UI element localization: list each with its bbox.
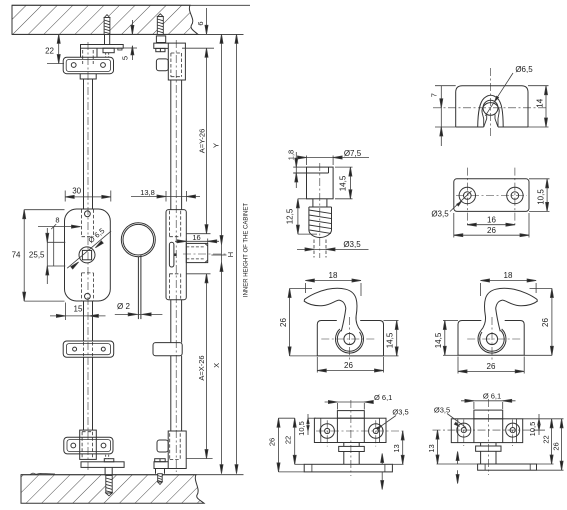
svg-text:H: H — [226, 252, 235, 257]
dim 22 (top left) — [58, 34, 60, 63]
catch slot — [484, 115, 498, 128]
svg-text:74: 74 — [12, 251, 21, 260]
front top bracket — [63, 57, 113, 73]
side bracket body — [168, 43, 185, 80]
dim Ø6,1 (guide M) — [336, 403, 338, 410]
dim 26 right (hook R) — [530, 288, 552, 290]
svg-text:Ø 6,1: Ø 6,1 — [483, 392, 501, 401]
bottom bracket hole right — [101, 443, 106, 448]
pin neck — [312, 199, 314, 207]
leader Ø3,5 (guide M) — [380, 416, 396, 428]
dim 13,8 (side body) — [165, 191, 167, 202]
hidden rod in body bottom (dashed) — [82, 273, 94, 301]
mid bracket hole left — [73, 347, 77, 351]
front screw shaft below panel — [104, 34, 106, 44]
hook R centerlines — [466, 338, 520, 340]
svg-text:26: 26 — [344, 361, 353, 370]
guide M centerlines — [350, 400, 352, 476]
side screw thread (embedded) — [157, 14, 163, 35]
guide M base — [304, 464, 392, 472]
long dim line INNER HEIGHT — [236, 34, 238, 473]
svg-text:6: 6 — [196, 21, 205, 25]
hook R base — [458, 321, 524, 356]
loop ring — [121, 223, 155, 257]
dim 8 — [38, 226, 81, 228]
svg-text:Ø3,5: Ø3,5 — [431, 210, 449, 219]
leader Ø3,5 (guide R) — [447, 414, 466, 428]
guide M hole right — [369, 424, 383, 438]
side bottom clip — [155, 459, 166, 462]
side bottom body — [168, 431, 186, 469]
leader Ø3,5 (strike) — [450, 191, 472, 212]
svg-text:25,5: 25,5 — [29, 251, 45, 260]
svg-text:26: 26 — [551, 442, 560, 450]
cylinder centerline — [183, 253, 227, 255]
dim 26 (guide M) — [279, 417, 295, 419]
top cabinet panel (hatched) — [12, 5, 198, 34]
side bottom screw shaft — [155, 469, 157, 474]
pin hidden core (dashed) — [314, 240, 326, 258]
dim 22 (guide M) — [295, 463, 305, 465]
hook R arm — [481, 288, 538, 331]
catch outline — [456, 86, 528, 127]
svg-text:16: 16 — [487, 216, 496, 225]
dim 26 bottom (hook R) — [457, 357, 459, 374]
front clamp hidden rod (dashed) — [83, 50, 94, 64]
long dim line Y / X — [221, 34, 223, 473]
hook L centerlines — [321, 338, 375, 340]
guide R hole left — [457, 423, 471, 437]
lock cylinder (side) — [186, 243, 207, 262]
hook L boss arcs — [335, 329, 363, 353]
front screw thread (embedded in top panel) — [104, 15, 110, 35]
svg-text:12,5: 12,5 — [286, 208, 295, 224]
dim 15 — [64, 303, 66, 321]
svg-text:14,5: 14,5 — [386, 332, 395, 348]
guide R centerlines — [487, 399, 489, 475]
svg-text:16: 16 — [192, 233, 200, 242]
dim 16 (strike) — [467, 224, 515, 226]
pin head groove step — [328, 167, 330, 173]
svg-text:Ø 2: Ø 2 — [117, 302, 130, 311]
bottom bracket hole left — [71, 443, 76, 448]
squiggle mark on bottom panel edge — [30, 473, 55, 475]
dim 10,5 (strike) — [529, 178, 550, 180]
svg-text:Ø 6,5: Ø 6,5 — [86, 226, 106, 245]
dim 14,5 — [335, 166, 353, 168]
guide R neck and flange — [481, 443, 496, 446]
dim 22 (guide R) — [537, 463, 554, 465]
pin centerline — [319, 163, 321, 258]
svg-text:14,5: 14,5 — [339, 175, 348, 191]
svg-text:26: 26 — [487, 226, 496, 235]
svg-text:30: 30 — [72, 187, 81, 196]
guide R hole right — [506, 423, 520, 437]
bracket hole right — [101, 63, 106, 68]
dim 13 (guide R) — [437, 463, 478, 465]
strike plate outline — [454, 179, 529, 212]
front clamp upper piece — [81, 48, 98, 57]
svg-text:18: 18 — [329, 271, 338, 280]
side body hidden rod bottom — [169, 274, 180, 299]
side rod mid — [170, 300, 172, 343]
loop stem — [137, 257, 139, 320]
side bottom hidden rod — [170, 433, 181, 459]
dim 1,8 — [295, 152, 297, 188]
svg-text:14: 14 — [536, 98, 545, 107]
dim 74 (body height) — [24, 209, 64, 211]
pin thread — [309, 207, 332, 238]
dim 10,5 (guide R) — [523, 418, 564, 420]
front bottom screw thread into panel — [106, 476, 112, 496]
svg-text:14,5: 14,5 — [434, 332, 443, 348]
mid bracket hole right — [101, 347, 105, 351]
guide M cap — [337, 411, 364, 419]
guide R body — [451, 419, 522, 443]
hook L arm — [304, 288, 361, 331]
dim 18 (hook R) — [480, 283, 482, 296]
side assembly centerline — [175, 40, 177, 472]
side body hidden rod top — [169, 211, 180, 237]
dim 26 (guide R) — [537, 469, 564, 471]
svg-text:Ø3,5: Ø3,5 — [392, 408, 408, 417]
bottom cabinet panel (hatched) — [21, 475, 204, 504]
top panel underside line extension — [12, 33, 244, 35]
front rod lower segment — [83, 357, 85, 430]
svg-text:26: 26 — [268, 438, 277, 446]
side mid band — [153, 343, 182, 356]
dim Ø6,1 (guide R) — [473, 402, 475, 409]
side body slot — [169, 242, 174, 267]
dim 26 left (hook L) — [290, 288, 312, 290]
dim Ø7,5 — [306, 156, 308, 166]
hidden rod in body top (dashed) — [82, 209, 94, 236]
svg-text:7: 7 — [429, 93, 438, 97]
dim 7 (catch) — [440, 86, 442, 146]
top panel top edge extension line — [12, 4, 250, 6]
svg-text:Ø7,5: Ø7,5 — [344, 149, 362, 158]
strike plate hole right — [507, 187, 523, 203]
catch hole — [483, 100, 498, 115]
svg-text:A=Y-26: A=Y-26 — [198, 129, 207, 154]
svg-text:8: 8 — [55, 216, 59, 225]
bracket hole left — [71, 63, 76, 68]
hook L base — [317, 321, 383, 356]
hook R boss arcs — [478, 329, 506, 353]
front bottom L-plate — [81, 462, 124, 468]
dim 14 (catch) — [528, 85, 549, 87]
svg-text:Y: Y — [212, 143, 221, 148]
dim 13 (guide M) — [392, 463, 403, 465]
front rod mid segment — [83, 301, 85, 341]
left part dimension texts — [12, 21, 250, 380]
front bottom nut above plate — [104, 459, 114, 462]
dim 30 (body width) — [64, 191, 66, 202]
side bracket hidden rod — [171, 53, 182, 77]
body bottom hole — [85, 293, 91, 299]
body top hole — [85, 211, 91, 217]
front bottom clamp — [80, 430, 97, 459]
svg-text:INNER HEIGHT OF THE CABINET: INNER HEIGHT OF THE CABINET — [244, 203, 250, 297]
svg-text:10,5: 10,5 — [537, 189, 546, 205]
dim Ø6,5 diagonal leader — [67, 231, 111, 268]
svg-text:Ø3,5: Ø3,5 — [434, 406, 450, 415]
front bottom bracket — [64, 437, 113, 454]
leader Ø6,5 (catch) — [485, 73, 513, 116]
front assembly centerline — [87, 42, 89, 472]
front rod upper segment — [83, 79, 85, 209]
svg-text:22: 22 — [541, 435, 550, 443]
base arrows (guide R) — [457, 453, 459, 464]
bottom panel top edge extension — [21, 474, 244, 476]
base arrows (guide M) — [381, 455, 383, 464]
front lock body — [65, 209, 111, 301]
dim 10,5 (guide M) — [308, 417, 316, 419]
side lock body — [166, 210, 186, 300]
side bracket clip under plate — [156, 48, 165, 51]
dim 25,5 — [46, 228, 48, 284]
side rod upper — [170, 80, 172, 210]
svg-text:26: 26 — [487, 362, 496, 371]
dim Ø3,5 — [297, 248, 369, 250]
hook L pivot hole — [344, 333, 355, 344]
side screw collar — [156, 36, 165, 43]
dim 14,5 (hook R) — [443, 320, 458, 322]
svg-text:X: X — [212, 363, 221, 368]
dim 6 (gap under panel, right) — [206, 8, 208, 34]
dim Ø2 (loop wire) — [115, 313, 163, 315]
guide M neck and flange — [344, 443, 359, 447]
svg-text:22: 22 — [284, 436, 293, 444]
dim 16 (cylinder) — [185, 239, 187, 244]
svg-text:22: 22 — [45, 47, 54, 56]
svg-text:13,8: 13,8 — [140, 188, 155, 197]
side bottom knob — [157, 440, 168, 452]
guide M hole left — [320, 424, 334, 438]
svg-text:5: 5 — [121, 56, 130, 60]
svg-text:Ø3,5: Ø3,5 — [343, 240, 361, 249]
side bracket knob — [156, 59, 168, 71]
svg-text:A=X-26: A=X-26 — [197, 355, 206, 380]
catch hump — [478, 95, 504, 127]
strike plate hole left — [459, 187, 475, 203]
spindle circle — [79, 247, 95, 263]
front bracket L-plate — [81, 45, 124, 49]
guide R cap — [474, 410, 503, 419]
front bottom screw shaft — [104, 467, 106, 475]
side rod lower — [170, 356, 172, 431]
dim 5 (gap under panel, left) — [131, 20, 133, 34]
dim 12,5 — [298, 198, 313, 200]
slot dot — [175, 254, 177, 256]
front clamp lower tab — [80, 74, 96, 79]
hook R pivot hole — [486, 333, 497, 344]
catch centerlines — [433, 107, 546, 109]
side bracket plate — [154, 43, 169, 48]
dim 26 bottom (hook L) — [316, 357, 318, 373]
svg-text:18: 18 — [504, 271, 513, 280]
dim 14,5 (hook L) — [384, 320, 399, 322]
long dim line A=X-26 — [206, 274, 208, 459]
dim 26 (strike) — [453, 213, 455, 238]
spindle square — [82, 250, 91, 259]
side bottom screw thread — [158, 474, 163, 485]
front nut under plate — [103, 48, 114, 53]
strike plate centerlines — [466, 168, 468, 228]
svg-text:10,5: 10,5 — [297, 421, 306, 436]
dim 18 (hook L) — [304, 283, 306, 293]
svg-text:26: 26 — [541, 318, 550, 327]
svg-text:15: 15 — [74, 305, 83, 314]
svg-text:13: 13 — [392, 444, 401, 452]
front mid bracket — [63, 341, 113, 357]
svg-text:1,8: 1,8 — [287, 150, 296, 160]
side bottom plate — [154, 462, 168, 469]
guide R base — [478, 464, 537, 470]
svg-text:10,5: 10,5 — [528, 422, 537, 437]
pin head — [307, 167, 334, 199]
guide M body — [314, 418, 386, 442]
svg-text:13: 13 — [427, 444, 436, 452]
hidden rod in mid bracket — [84, 342, 93, 356]
svg-text:Ø6,5: Ø6,5 — [515, 65, 533, 74]
catch counterbore arcs — [482, 103, 499, 113]
svg-text:26: 26 — [279, 318, 288, 327]
long dim line A=Y-26 — [206, 48, 208, 234]
svg-text:Ø 6,1: Ø 6,1 — [374, 393, 392, 402]
